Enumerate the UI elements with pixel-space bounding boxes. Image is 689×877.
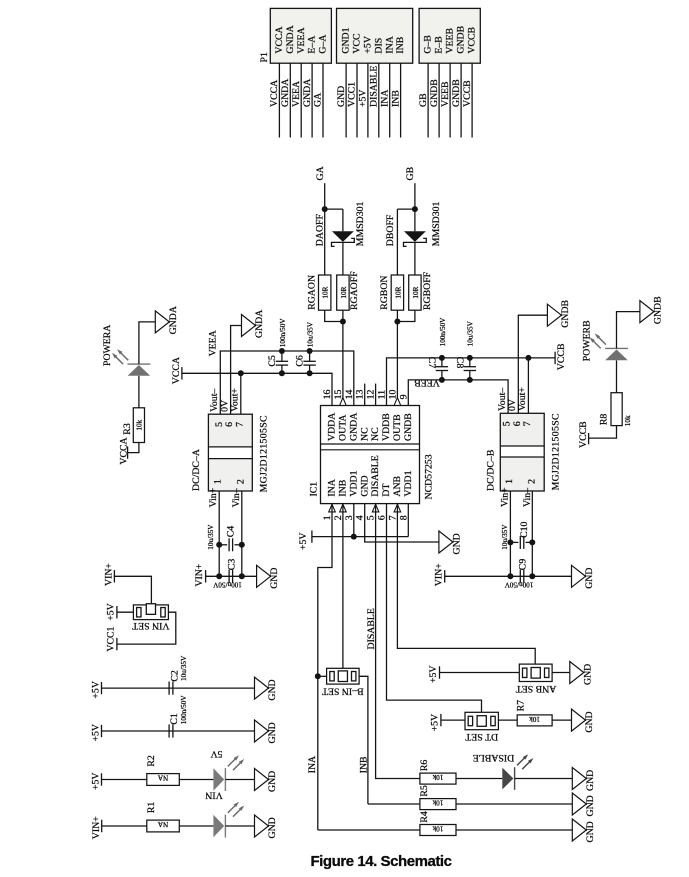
svg-text:GNDB: GNDB xyxy=(560,299,571,327)
svg-text:7: 7 xyxy=(522,421,533,426)
LED POWERA xyxy=(128,365,151,376)
svg-text:VCCB: VCCB xyxy=(578,421,589,448)
svg-text:INA: INA xyxy=(327,479,338,496)
wire xyxy=(231,326,242,415)
wire xyxy=(518,315,547,413)
wire xyxy=(318,675,327,677)
wire xyxy=(441,719,465,721)
IC1 pin 12 NC stub xyxy=(375,384,377,406)
ground GND (C1) xyxy=(255,720,269,742)
wire VCCB rail xyxy=(387,358,556,406)
svg-text:VIN+: VIN+ xyxy=(91,816,102,839)
svg-text:10k: 10k xyxy=(432,773,443,781)
wire xyxy=(318,829,420,831)
svg-text:VCCB: VCCB xyxy=(556,343,567,370)
svg-text:100n/50V: 100n/50V xyxy=(279,318,287,348)
svg-text:VIN: VIN xyxy=(205,790,222,801)
wire ANB xyxy=(397,504,535,668)
svg-text:R8: R8 xyxy=(599,414,610,426)
wire xyxy=(138,376,140,408)
svg-text:GND1: GND1 xyxy=(341,27,352,53)
svg-text:VCC1: VCC1 xyxy=(347,82,358,107)
junction xyxy=(315,673,321,679)
wire xyxy=(438,63,440,137)
ground GND (R1) xyxy=(255,815,269,837)
svg-text:7: 7 xyxy=(387,515,398,520)
wire xyxy=(589,426,617,439)
svg-text:+5V: +5V xyxy=(358,90,369,108)
svg-text:Figure 14. Schematic: Figure 14. Schematic xyxy=(310,853,451,870)
svg-text:+5V: +5V xyxy=(91,681,102,699)
ground GND xyxy=(572,565,586,587)
DC/DC converter A MGJ2D121505SC xyxy=(208,414,252,447)
svg-text:VDD1: VDD1 xyxy=(403,470,414,496)
wire DT xyxy=(387,504,482,716)
wire xyxy=(449,63,451,137)
wire xyxy=(289,63,291,137)
svg-text:DAOFF: DAOFF xyxy=(315,214,326,247)
svg-text:NC: NC xyxy=(370,427,381,441)
wire VEEB rail xyxy=(408,380,508,413)
wire xyxy=(389,63,391,137)
wire xyxy=(407,504,409,537)
wire xyxy=(240,373,242,414)
capacitor C7 100n/50V xyxy=(441,358,443,367)
wire xyxy=(353,504,355,537)
wire xyxy=(445,575,572,577)
svg-text:P1: P1 xyxy=(259,52,270,62)
svg-text:DISABLE: DISABLE xyxy=(366,608,377,649)
svg-text:GNDB: GNDB xyxy=(451,79,462,107)
svg-text:R2: R2 xyxy=(146,755,157,767)
wire xyxy=(396,310,398,405)
svg-text:R4: R4 xyxy=(419,811,430,823)
wire xyxy=(345,63,347,137)
svg-text:10k: 10k xyxy=(432,799,443,807)
svg-text:100n/50V: 100n/50V xyxy=(504,581,534,589)
wire xyxy=(342,242,344,275)
svg-text:MMSD301: MMSD301 xyxy=(355,201,366,246)
capacitor C4 10u/35V xyxy=(219,544,227,546)
svg-text:10R: 10R xyxy=(322,286,330,298)
svg-text:VDD1: VDD1 xyxy=(348,470,359,496)
svg-text:10k: 10k xyxy=(432,825,443,833)
jumper VIN SET xyxy=(133,605,168,620)
wire xyxy=(311,63,313,137)
svg-text:+5V: +5V xyxy=(363,36,374,54)
svg-text:C2: C2 xyxy=(169,670,180,682)
svg-text:GNDB: GNDB xyxy=(429,79,440,107)
svg-text:VEEB: VEEB xyxy=(445,28,456,54)
svg-text:VIN+: VIN+ xyxy=(434,563,445,586)
svg-text:E–A: E–A xyxy=(307,36,318,54)
svg-text:1: 1 xyxy=(213,479,224,484)
svg-text:4: 4 xyxy=(355,515,366,520)
wire xyxy=(456,803,572,805)
svg-text:10R: 10R xyxy=(394,286,402,298)
svg-text:OUTA: OUTA xyxy=(338,415,349,441)
svg-text:7: 7 xyxy=(234,422,245,427)
svg-text:C5: C5 xyxy=(267,355,278,367)
capacitor C6 10u/35V xyxy=(309,351,311,361)
svg-text:GB: GB xyxy=(405,166,416,180)
svg-text:5V: 5V xyxy=(211,748,223,759)
svg-text:10R: 10R xyxy=(412,286,420,298)
wire xyxy=(128,443,139,453)
svg-text:GNDB: GNDB xyxy=(403,413,414,441)
wire xyxy=(460,63,462,137)
svg-text:R3: R3 xyxy=(122,423,133,435)
svg-text:11: 11 xyxy=(377,390,388,400)
capacitor C8 10u/35V xyxy=(469,358,471,367)
svg-text:GND: GND xyxy=(267,679,278,700)
svg-text:G–B: G–B xyxy=(423,35,434,54)
junction xyxy=(351,534,357,540)
wire xyxy=(356,63,358,137)
connector P1 box A xyxy=(270,8,331,63)
wire xyxy=(396,209,398,275)
jumper DT SET xyxy=(465,712,498,729)
wire xyxy=(531,491,533,576)
svg-text:RGAOFF: RGAOFF xyxy=(349,271,360,310)
wire xyxy=(498,719,517,721)
ground GND (IC) xyxy=(439,531,453,553)
svg-text:RGBOFF: RGBOFF xyxy=(422,271,433,310)
svg-text:VDDA: VDDA xyxy=(327,413,338,441)
wire xyxy=(114,576,151,604)
svg-text:INA: INA xyxy=(379,90,390,107)
LED DISABLE xyxy=(502,768,513,790)
svg-text:GND: GND xyxy=(267,771,278,792)
svg-text:VEEA: VEEA xyxy=(296,27,307,53)
svg-text:R5: R5 xyxy=(419,785,430,797)
svg-text:INB: INB xyxy=(338,479,349,496)
wire xyxy=(225,779,254,781)
wire xyxy=(102,779,147,781)
svg-text:GNDB: GNDB xyxy=(456,25,467,53)
wire xyxy=(225,825,254,827)
ground GND (R2) xyxy=(255,769,269,791)
svg-text:VCCB: VCCB xyxy=(467,26,478,53)
wire xyxy=(400,63,402,137)
capacitor C10 10u/35V xyxy=(510,541,518,543)
svg-text:B–IN SET: B–IN SET xyxy=(322,686,364,697)
junction xyxy=(340,319,346,325)
svg-text:MGJ2D121505SC: MGJ2D121505SC xyxy=(550,413,561,490)
svg-text:R7: R7 xyxy=(515,700,526,712)
ground GND (R7) xyxy=(572,709,586,731)
wire xyxy=(368,803,420,805)
svg-text:+5V: +5V xyxy=(298,533,309,551)
ground GNDA xyxy=(242,315,256,337)
wire xyxy=(617,312,640,349)
svg-text:10u/35V: 10u/35V xyxy=(207,524,215,550)
svg-text:GNDA: GNDA xyxy=(302,79,313,107)
svg-text:C7: C7 xyxy=(426,357,437,369)
svg-text:IC1: IC1 xyxy=(309,482,320,497)
svg-text:R6: R6 xyxy=(419,760,430,772)
svg-text:GNDA: GNDA xyxy=(348,413,359,441)
svg-text:VCC: VCC xyxy=(352,33,363,53)
diode DAOFF MMSD301 xyxy=(332,231,354,242)
resistor R7 10k xyxy=(517,715,552,726)
wire xyxy=(397,208,415,210)
wire xyxy=(322,63,324,137)
svg-text:8: 8 xyxy=(398,515,409,520)
wire xyxy=(427,63,429,137)
svg-text:POWERB: POWERB xyxy=(581,320,592,361)
svg-text:VCCA: VCCA xyxy=(274,26,285,53)
jumper B-IN SET xyxy=(327,668,360,684)
resistor R3 10k xyxy=(133,408,144,443)
wire xyxy=(206,575,257,577)
svg-text:1: 1 xyxy=(322,515,333,520)
svg-text:VDDB: VDDB xyxy=(381,413,392,441)
ground GNDB (POWERB) xyxy=(640,301,654,323)
svg-text:G–A: G–A xyxy=(318,35,329,54)
ground GND (ANB) xyxy=(570,662,584,684)
svg-text:DT SET: DT SET xyxy=(465,731,498,742)
svg-text:1: 1 xyxy=(504,479,515,484)
IC U1 IC1 NCD57253 xyxy=(321,406,420,504)
svg-text:E–B: E–B xyxy=(434,36,445,54)
svg-text:DISABLE: DISABLE xyxy=(473,752,514,763)
svg-text:OUTB: OUTB xyxy=(392,414,403,441)
svg-text:GND: GND xyxy=(267,722,278,743)
svg-text:100n/50V: 100n/50V xyxy=(180,695,188,725)
resistor R8 10k xyxy=(611,393,622,426)
ground GND xyxy=(257,565,271,587)
svg-text:INA: INA xyxy=(307,756,318,773)
svg-text:DISABLE: DISABLE xyxy=(370,455,381,496)
IC1 pin 13 NC stub xyxy=(364,384,366,406)
wire DISABLE xyxy=(376,504,420,779)
svg-text:NA: NA xyxy=(157,820,168,828)
junction xyxy=(322,206,328,212)
ground GND (C2) xyxy=(255,677,269,699)
wire xyxy=(527,358,529,413)
capacitor C9 100n/50V xyxy=(519,570,521,583)
svg-text:R1: R1 xyxy=(146,802,157,814)
wire xyxy=(552,719,571,721)
svg-text:10u/35V: 10u/35V xyxy=(307,321,315,347)
wire xyxy=(440,672,520,674)
wire xyxy=(324,183,326,275)
junction xyxy=(525,355,531,361)
svg-text:RGBON: RGBON xyxy=(379,276,390,310)
svg-text:Vout+: Vout+ xyxy=(517,387,528,411)
wire xyxy=(325,310,343,321)
svg-text:GND: GND xyxy=(585,795,596,816)
connector P1 box B xyxy=(337,8,413,63)
wire xyxy=(102,825,147,827)
ground GND (R5) xyxy=(572,793,586,815)
wire xyxy=(515,778,573,780)
svg-text:GA: GA xyxy=(313,93,324,107)
svg-text:DISABLE: DISABLE xyxy=(369,66,380,107)
svg-text:VEEA: VEEA xyxy=(208,330,219,356)
svg-text:MGJ2D121505SC: MGJ2D121505SC xyxy=(259,415,270,492)
wire xyxy=(378,63,380,137)
wire xyxy=(397,310,415,321)
svg-text:6: 6 xyxy=(377,515,388,520)
svg-text:DBOFF: DBOFF xyxy=(385,214,396,246)
svg-text:GND: GND xyxy=(451,533,462,554)
svg-text:DC/DC–A: DC/DC–A xyxy=(191,449,202,491)
wire pin4 to ground xyxy=(365,504,439,542)
svg-text:C9: C9 xyxy=(518,559,529,571)
svg-text:10u/35V: 10u/35V xyxy=(501,524,509,550)
wire xyxy=(241,491,243,576)
ground GNDA (POWERA) xyxy=(155,311,169,333)
svg-text:Vin+: Vin+ xyxy=(208,487,219,507)
svg-text:10u/35V: 10u/35V xyxy=(467,320,475,346)
svg-text:INA: INA xyxy=(384,36,395,53)
svg-text:DC/DC–B: DC/DC–B xyxy=(486,449,497,491)
capacitor C1 100n/50V xyxy=(168,724,170,737)
svg-text:GNDA: GNDA xyxy=(168,306,179,334)
svg-text:100n/50V: 100n/50V xyxy=(439,317,447,347)
svg-text:10u/35V: 10u/35V xyxy=(180,655,188,681)
svg-text:2: 2 xyxy=(333,515,344,520)
svg-text:10k: 10k xyxy=(529,715,540,723)
svg-text:VCCA: VCCA xyxy=(269,80,280,107)
svg-text:VCCB: VCCB xyxy=(462,80,473,107)
svg-text:C3: C3 xyxy=(226,559,237,571)
wire xyxy=(179,825,213,827)
wire xyxy=(414,242,416,275)
svg-text:VEEB: VEEB xyxy=(414,377,440,388)
wire xyxy=(325,208,343,210)
svg-text:+5V: +5V xyxy=(105,603,116,621)
wire xyxy=(456,829,572,831)
wire xyxy=(509,491,511,576)
svg-text:VEEA: VEEA xyxy=(291,81,302,107)
svg-text:GND: GND xyxy=(584,568,595,589)
svg-text:Vin–: Vin– xyxy=(231,488,242,507)
ground GND (R4) xyxy=(572,819,586,841)
svg-text:NCD57253: NCD57253 xyxy=(423,454,434,499)
svg-text:14: 14 xyxy=(344,390,355,400)
svg-text:10R: 10R xyxy=(340,286,348,298)
svg-text:GND: GND xyxy=(582,664,593,685)
svg-text:12: 12 xyxy=(366,390,377,400)
svg-text:16: 16 xyxy=(322,390,333,400)
wire INB xyxy=(342,504,344,671)
svg-text:C8: C8 xyxy=(454,357,465,369)
capacitor C3 100n/50V xyxy=(228,570,230,583)
svg-text:Vin+: Vin+ xyxy=(499,487,510,507)
svg-text:10k: 10k xyxy=(136,419,144,430)
resistor R1 NA xyxy=(147,820,180,832)
wire xyxy=(367,63,369,137)
svg-text:DT: DT xyxy=(381,484,392,497)
svg-text:C6: C6 xyxy=(295,355,306,367)
svg-text:3: 3 xyxy=(344,515,355,520)
svg-text:GND: GND xyxy=(359,475,370,496)
svg-text:NA: NA xyxy=(157,774,168,782)
resistor RGAOFF 10R xyxy=(337,275,349,310)
svg-text:+5V: +5V xyxy=(428,666,439,684)
svg-text:+5V: +5V xyxy=(91,773,102,791)
wire xyxy=(342,310,344,405)
svg-text:DIS: DIS xyxy=(373,38,384,54)
svg-text:C4: C4 xyxy=(225,526,236,538)
svg-text:MMSD301: MMSD301 xyxy=(431,201,442,246)
svg-text:VCCA: VCCA xyxy=(171,357,182,384)
capacitor C2 10u/35V xyxy=(168,682,170,695)
wire xyxy=(414,183,416,231)
junction xyxy=(238,370,244,376)
wire xyxy=(552,672,570,674)
wire xyxy=(471,63,473,137)
svg-text:VIN+: VIN+ xyxy=(194,563,205,586)
svg-text:GNDA: GNDA xyxy=(280,79,291,107)
svg-text:RGAON: RGAON xyxy=(306,275,317,310)
LED POWERB xyxy=(605,350,628,361)
svg-text:GA: GA xyxy=(315,166,326,180)
svg-text:INB: INB xyxy=(358,756,369,773)
resistor R4 10k xyxy=(420,825,456,836)
svg-text:VIN+: VIN+ xyxy=(103,563,114,586)
wire xyxy=(139,322,155,364)
svg-text:2: 2 xyxy=(235,479,246,484)
svg-text:C1: C1 xyxy=(169,713,180,725)
resistor RGBOFF 10R xyxy=(409,275,421,310)
junction xyxy=(412,206,418,212)
wire xyxy=(312,536,408,538)
wire xyxy=(300,63,302,137)
wire xyxy=(342,209,344,231)
resistor R5 10k xyxy=(420,799,456,810)
svg-text:13: 13 xyxy=(355,390,366,400)
resistor RGBON 10R xyxy=(391,275,403,310)
wire VEEA rail xyxy=(220,351,353,414)
svg-text:GND: GND xyxy=(585,770,596,791)
svg-text:GND: GND xyxy=(267,817,278,838)
LED 5V indicator xyxy=(213,768,224,791)
IC1 input arrows pins 1 2 5 7 xyxy=(329,504,336,512)
svg-text:GND: GND xyxy=(584,711,595,732)
wire xyxy=(102,687,255,689)
LED VIN indicator xyxy=(213,815,224,838)
svg-text:GNDA: GNDA xyxy=(254,310,265,338)
junction xyxy=(394,319,400,325)
resistor R6 10k xyxy=(420,773,456,784)
wire xyxy=(117,611,133,613)
wire xyxy=(278,63,280,137)
svg-text:2: 2 xyxy=(527,479,538,484)
wire xyxy=(456,778,502,780)
svg-text:GNDB: GNDB xyxy=(652,296,663,324)
IC1 pin 15 output arrow xyxy=(340,398,347,406)
connector P1 box C xyxy=(419,8,480,63)
IC1 pin 10 output arrow xyxy=(394,398,401,406)
wire xyxy=(616,360,618,392)
svg-text:VEEB: VEEB xyxy=(440,81,451,107)
svg-text:ANB SET: ANB SET xyxy=(516,683,557,694)
svg-text:Vin–: Vin– xyxy=(522,488,533,507)
wire xyxy=(117,612,176,644)
svg-text:100n/50V: 100n/50V xyxy=(212,581,242,589)
svg-text:C10: C10 xyxy=(519,521,530,537)
wire xyxy=(359,676,368,804)
svg-text:GND: GND xyxy=(336,86,347,107)
svg-text:ANB: ANB xyxy=(392,475,403,496)
ground GNDB xyxy=(547,304,561,326)
wire xyxy=(102,730,255,732)
svg-text:GB: GB xyxy=(418,93,429,107)
